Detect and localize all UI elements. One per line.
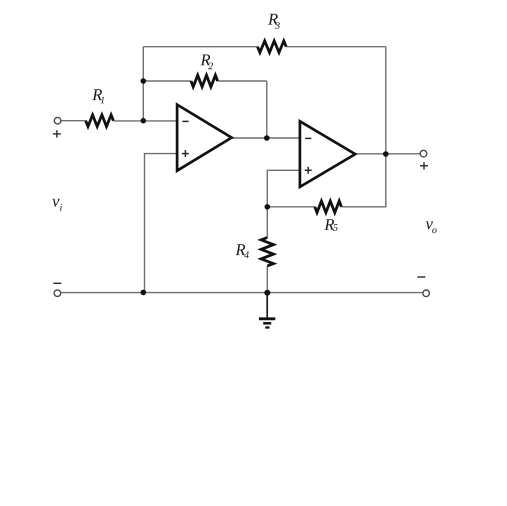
wire: op-amp U2 plus input left then down to node C xyxy=(267,170,300,207)
wire: R5 right then up to output node xyxy=(341,154,385,207)
resistor R1 xyxy=(86,115,114,127)
plus sign at input xyxy=(53,130,61,137)
node B junction dot (U1 output / R2 / U2 minus) xyxy=(264,135,270,141)
output terminal top (+) xyxy=(420,150,427,157)
junction dot bottom rail ground xyxy=(264,290,270,296)
input terminal bottom (-) xyxy=(54,290,61,297)
junction dot R2 left on vertical branch xyxy=(141,78,147,84)
input terminal top (+) xyxy=(54,117,61,124)
resistor R4 xyxy=(261,238,273,267)
junction dot bottom rail left xyxy=(141,290,147,296)
node C junction dot (U2 plus / R4 / R5) xyxy=(265,204,271,210)
wire: R3 right down to output node xyxy=(385,47,387,154)
ground xyxy=(259,293,275,328)
wire: R3 right segment xyxy=(286,46,386,48)
wire: input terminal to R1 left xyxy=(61,120,85,122)
resistor R2 xyxy=(191,75,218,87)
plus sign at output xyxy=(420,162,428,169)
label R1 xyxy=(92,89,104,103)
label R3 xyxy=(268,14,280,29)
wire: R2 left segment xyxy=(143,80,191,82)
wire: node C down to R4 top xyxy=(266,207,268,238)
output node junction dot (U2 output / R3 / R5) xyxy=(383,151,389,157)
label R4 xyxy=(235,244,249,258)
op-amp U2 xyxy=(300,121,355,187)
wire: node A vertical up to R3 rail xyxy=(142,47,144,121)
op-amp U1 xyxy=(177,105,232,171)
wire: op-amp U1 output to op-amp U2 minus input xyxy=(232,137,300,139)
U1 non-inverting input marker (+) xyxy=(182,153,189,155)
resistor R5 xyxy=(315,201,342,213)
wire: node C to R5 left xyxy=(267,206,315,208)
wire: R4 bottom to bottom rail xyxy=(266,266,268,292)
wire: R3 left segment xyxy=(143,46,257,48)
resistor R3 xyxy=(258,41,287,53)
wire: R2 right segment xyxy=(218,80,267,82)
U2 non-inverting input marker (+) xyxy=(305,169,312,171)
wire: bottom rail xyxy=(61,292,423,294)
label vi xyxy=(52,199,62,211)
label vo xyxy=(426,221,437,233)
U2 inverting input marker (-) xyxy=(305,137,311,139)
wire: R2 right down to node B xyxy=(266,81,268,138)
node A junction dot (R1 / R2-R3 branch / U1 minus) xyxy=(141,118,147,124)
minus sign at input bottom xyxy=(53,282,61,284)
U1 inverting input marker (-) xyxy=(182,120,188,122)
output terminal bottom (-) xyxy=(423,290,430,297)
wire: op-amp U1 plus input left then down to bottom rail xyxy=(145,154,178,293)
label R5 xyxy=(324,219,337,231)
minus sign at output bottom xyxy=(417,276,425,278)
label R2 xyxy=(200,55,213,70)
wire: op-amp U2 output to output terminal xyxy=(355,153,420,155)
wire: R1 right to op-amp U1 minus input xyxy=(113,120,177,122)
